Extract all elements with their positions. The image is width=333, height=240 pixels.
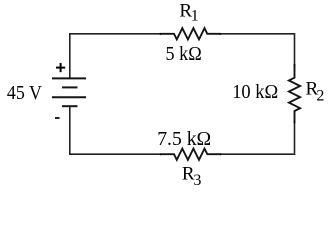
resistor R1	[161, 28, 221, 39]
battery V1 plate 4 short (-)	[62, 105, 78, 107]
resistor R3	[160, 149, 220, 160]
resistor R2	[289, 65, 300, 123]
node dot above R2	[293, 64, 295, 66]
svg-text:45 V: 45 V	[7, 82, 42, 104]
battery V1 plate 1 long (+)	[52, 77, 86, 79]
wire top-right (R1 to top-right corner down to R2)	[221, 34, 295, 65]
battery V1 plate 3 long	[52, 96, 86, 98]
svg-text:7.5 kΩ: 7.5 kΩ	[157, 128, 211, 150]
battery - polarity sign	[55, 117, 60, 119]
battery + polarity sign	[56, 63, 65, 72]
svg-text:5 kΩ: 5 kΩ	[166, 43, 202, 65]
node dot right of R1	[220, 33, 222, 35]
wire top-left (from battery + terminal up and across to R1)	[70, 34, 161, 78]
wire bottom-right (R2 down to corner and across to R3)	[221, 123, 295, 155]
wire bottom-left (R3 to battery - terminal)	[70, 106, 161, 154]
svg-text:1: 1	[191, 8, 199, 25]
node dot below R2	[293, 121, 295, 123]
node dot left of R3	[159, 153, 161, 155]
node dot right of R3	[219, 153, 221, 155]
node dot left of R1	[159, 33, 161, 35]
svg-text:2: 2	[316, 87, 324, 104]
battery V1 plate 2 short	[62, 86, 78, 88]
svg-text:3: 3	[193, 172, 201, 187]
svg-text:10 kΩ: 10 kΩ	[232, 81, 278, 103]
